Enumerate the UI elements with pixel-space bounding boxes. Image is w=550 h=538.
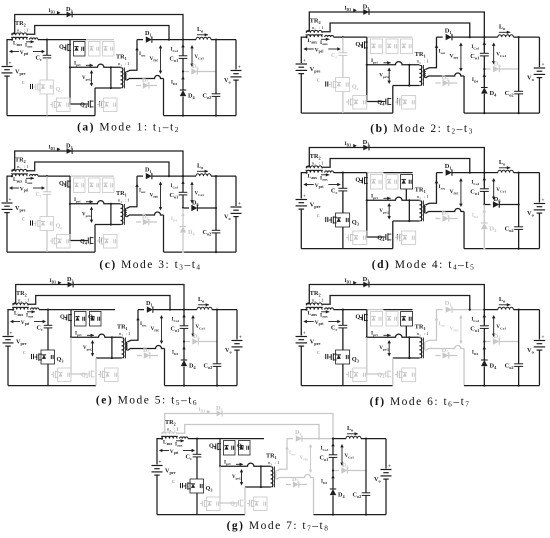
wire [348, 470, 366, 472]
current label Ipri [371, 58, 391, 64]
wire [342, 227, 344, 249]
capacitor Cc [186, 439, 202, 461]
wire [71, 309, 87, 311]
diode D5 [286, 476, 307, 488]
transistor Q5 (inactive block) [395, 96, 416, 110]
transformer TR1 core [273, 467, 275, 488]
transformer TR2 secondary winding [12, 169, 28, 171]
diode D3 [363, 139, 370, 150]
svg-text:+: + [238, 66, 241, 71]
wire [183, 328, 185, 341]
transistor Q3 [329, 213, 359, 227]
diode D4 [180, 208, 196, 252]
capacitor Cc [36, 176, 52, 198]
current label Isec [426, 37, 446, 69]
wire [342, 364, 344, 386]
node [366, 64, 368, 66]
diode D5 [136, 214, 157, 226]
transformer TR2 label [15, 20, 29, 34]
diode D6 [341, 462, 348, 474]
voltage label VCo1 [492, 315, 506, 337]
transistor Q3 (inactive block) [346, 368, 367, 382]
svg-text:: 1: : 1 [23, 28, 30, 33]
wire [334, 172, 367, 174]
voltage label VCo1 [492, 43, 506, 65]
svg-text:: 1: : 1 [125, 331, 132, 336]
transistor Q4 [80, 100, 102, 109]
transformer TR2 label [15, 157, 29, 171]
voltage label Vpri2 [379, 68, 391, 85]
node [366, 336, 368, 338]
capacitor Cc [37, 310, 53, 332]
node [69, 66, 71, 68]
current label Ipri [371, 194, 391, 200]
wire [245, 486, 271, 488]
wire [301, 385, 393, 387]
capacitor Coss [23, 351, 34, 359]
transformer TR1 secondary winding [125, 72, 126, 80]
wire [182, 207, 189, 209]
current label Ipri [74, 61, 93, 68]
capacitor Cc [36, 40, 52, 62]
voltage label Vpri [10, 320, 46, 326]
wire [332, 469, 339, 471]
transformer TR2 primary winding [306, 170, 322, 172]
transformer TR1 label [415, 324, 430, 338]
capacitor Co1 [171, 310, 189, 333]
transistor Q4 gate wire [367, 200, 384, 237]
svg-text:: 1: : 1 [422, 60, 429, 65]
voltage source Vo [527, 173, 545, 249]
current label ICo1 [171, 181, 185, 190]
inductor Laux [13, 174, 38, 183]
snubber capacitor of Q2 [370, 175, 382, 190]
svg-text:+: + [9, 198, 12, 203]
transistor Q4 [81, 370, 103, 379]
inductor Lo [498, 296, 514, 310]
wire [367, 309, 384, 311]
svg-text:n1: n1 [417, 60, 421, 65]
circuit mode d [296, 139, 546, 250]
inductor Laux [308, 35, 334, 44]
current label Isec [127, 176, 146, 208]
wire [426, 346, 464, 351]
caption mode b [370, 123, 473, 136]
current label Ipri [75, 331, 94, 338]
wire [165, 414, 333, 439]
wire [211, 175, 236, 177]
svg-text:VCo1: VCo1 [345, 454, 355, 459]
transformer TR1 primary winding [271, 467, 274, 487]
voltage label Vrec [449, 315, 462, 344]
wire [334, 309, 367, 311]
wire [342, 328, 344, 350]
wire [301, 310, 306, 336]
wire [500, 341, 519, 343]
svg-text:ID4: ID4 [171, 217, 177, 222]
transformer TR1 label [117, 324, 131, 338]
voltage label Vrec [150, 182, 163, 211]
wire [483, 56, 485, 69]
svg-text:Vpri2: Vpri2 [232, 475, 242, 480]
wire [15, 151, 183, 176]
wire [47, 328, 49, 350]
magnetizing inductance [110, 66, 112, 89]
wire [301, 248, 393, 250]
diode D1 [445, 300, 452, 313]
wire [383, 172, 412, 174]
wire [70, 175, 86, 177]
wire [95, 224, 121, 226]
current label ICo1 [471, 314, 486, 323]
wire [500, 203, 520, 205]
transistor Q5 (inactive block) [97, 98, 117, 112]
wire [236, 438, 264, 440]
transformer TR1 core [123, 68, 125, 89]
transistor Q2 [88, 312, 101, 327]
diode D3 [66, 6, 73, 17]
transistor Q5 (inactive block) [98, 368, 118, 382]
capacitor Cc [331, 173, 347, 195]
current label I_D3 [49, 145, 61, 152]
transistor Q4 gate wire [367, 65, 384, 102]
circuit mode a [2, 6, 242, 117]
transformer TR2 core [11, 173, 28, 175]
wire [323, 296, 470, 310]
transistor Q3 (inactive block) [51, 368, 71, 382]
transistor Q5 (inactive block) [395, 368, 416, 382]
wire [183, 340, 190, 342]
svg-text:Vpri2: Vpri2 [82, 76, 92, 81]
transistor Q4 [80, 237, 102, 246]
transformer TR1 secondary winding [126, 342, 127, 350]
voltage source Vpre [3, 332, 27, 347]
wire [165, 385, 238, 387]
current label Ipri [371, 331, 391, 337]
voltage label Vpri2 [379, 340, 391, 357]
capacitor Coss [317, 351, 328, 359]
wire [392, 221, 394, 249]
transistor Q1 [59, 40, 71, 68]
capacitor Co1 [320, 439, 338, 462]
transistor Q1 [355, 37, 367, 65]
voltage source Vo [225, 310, 243, 386]
wire [94, 225, 96, 253]
transistor Q5 (inactive block) [247, 497, 267, 511]
voltage label VCo1 [191, 315, 205, 337]
wire [38, 39, 70, 41]
current label Iaux [26, 310, 35, 319]
current label ID4 [321, 475, 335, 485]
wire [128, 346, 165, 351]
svg-text:C: C [317, 351, 320, 355]
wire [28, 162, 170, 176]
current label I_D3 [344, 141, 356, 148]
snubber capacitor block [103, 42, 115, 57]
voltage source Vpre [296, 331, 321, 347]
svg-text:ID4: ID4 [172, 351, 178, 356]
svg-text:VCo1: VCo1 [195, 192, 205, 197]
current label Isec [127, 40, 146, 72]
transformer TR1 secondary winding [424, 205, 425, 213]
transformer TR1 label [116, 54, 130, 68]
capacitor Co1 [470, 37, 489, 60]
current label ID4 [472, 74, 486, 84]
svg-text:: 1: : 1 [274, 460, 281, 465]
svg-text:+: + [303, 58, 306, 64]
transistor Q2 (inactive) [89, 178, 101, 193]
voltage label VCo1 [190, 182, 204, 204]
transistor Q1 [209, 439, 221, 467]
voltage label Vpri2 [83, 340, 94, 357]
voltage label VCo1 [190, 45, 204, 67]
transformer TR1 label [266, 453, 280, 467]
wire [6, 76, 8, 116]
voltage source Vpre [2, 198, 26, 213]
wire [463, 349, 465, 386]
wire [7, 251, 95, 253]
wire [138, 309, 144, 311]
diode D1 [445, 163, 452, 176]
wire [15, 15, 183, 40]
diode D5 [137, 347, 158, 359]
circuit mode b [296, 4, 546, 115]
wire [287, 438, 293, 440]
svg-text:+: + [9, 62, 12, 67]
wire [198, 71, 216, 73]
wire [182, 58, 184, 71]
node [219, 465, 221, 467]
node [366, 199, 368, 201]
svg-text:(d) Mode 4: t4–t5: (d) Mode 4: t4–t5 [372, 259, 475, 272]
current label Isec [426, 310, 446, 342]
wire [300, 74, 302, 114]
svg-text:+: + [10, 332, 13, 337]
diode D4 [180, 72, 196, 116]
diode D5 [435, 75, 457, 87]
voltage source Vpre [296, 58, 321, 74]
wire [95, 358, 97, 386]
voltage source Vpre [2, 62, 26, 77]
wire [7, 115, 95, 117]
wire [393, 220, 420, 222]
wire [513, 36, 539, 38]
wire [137, 39, 143, 41]
transformer TR1 core [123, 204, 125, 225]
capacitor Co2 [204, 310, 222, 387]
wire [323, 23, 470, 37]
wire [483, 203, 490, 205]
wire [463, 76, 465, 113]
transistor Q3 (inactive block) [200, 497, 220, 511]
transformer TR1 secondary winding [424, 342, 425, 350]
transformer TR1 label [415, 187, 430, 201]
wire [309, 148, 484, 173]
voltage label Vpri2 [232, 469, 243, 486]
svg-text:: 1: : 1 [422, 332, 429, 337]
transformer TR2 core [12, 306, 29, 308]
capacitor Co2 [203, 40, 221, 117]
wire [196, 457, 198, 479]
capacitor Co1 [470, 310, 489, 333]
transformer TR1 secondary winding [275, 471, 276, 479]
transformer TR2 secondary winding [162, 432, 178, 434]
wire [309, 12, 484, 37]
diode D6 [192, 333, 199, 345]
diode D1 [445, 28, 452, 41]
wire [301, 37, 306, 63]
magnetizing inductance [408, 199, 410, 222]
voltage label Vpri [303, 320, 340, 326]
voltage label Vpri [303, 183, 340, 189]
inductor Laux [308, 171, 334, 180]
voltage label Vrec [300, 444, 313, 473]
wire [426, 209, 464, 214]
current label ID4 [172, 346, 186, 356]
current label ID4 [171, 76, 185, 86]
node [305, 172, 307, 174]
wire [156, 475, 158, 514]
voltage label Vpri [303, 47, 340, 53]
transformer TR2 label [16, 290, 30, 304]
wire [300, 346, 302, 386]
transformer TR2 secondary winding [306, 166, 322, 168]
wire [342, 55, 344, 77]
node [69, 203, 71, 205]
svg-text:(b) Mode 2: t2–t3: (b) Mode 2: t2–t3 [370, 123, 473, 136]
diode D6 [493, 333, 501, 345]
wire [157, 439, 162, 465]
wire [483, 68, 490, 70]
current label ICo1 [171, 44, 185, 53]
svg-text:(e) Mode 5: t5–t6: (e) Mode 5: t5–t6 [96, 395, 198, 408]
current label Iaux [320, 310, 329, 319]
voltage label Vrec [150, 45, 163, 74]
caption mode f [370, 396, 471, 409]
inductor Lo [498, 159, 514, 173]
capacitor Co2 [505, 173, 524, 250]
diode D5 [136, 77, 157, 89]
voltage label Vpri2 [379, 203, 391, 220]
wire [436, 36, 442, 38]
node [161, 438, 163, 440]
transistor Q4 [230, 499, 252, 508]
svg-text:+: + [542, 62, 545, 68]
capacitor Coss [22, 218, 33, 226]
diode D3 [363, 4, 370, 15]
transformer TR2 primary winding [12, 174, 27, 176]
wire [332, 457, 334, 470]
transformer TR2 core [11, 36, 28, 38]
circuit mode c [2, 143, 242, 254]
wire [301, 173, 306, 199]
wire [426, 73, 464, 78]
svg-text:ICo1: ICo1 [171, 184, 179, 189]
transistor Q3 (inactive block) [346, 231, 367, 245]
diode D5 [435, 210, 457, 222]
transformer TR1 primary winding [122, 338, 125, 358]
current label I_D3 [199, 407, 211, 414]
svg-text:VCo1: VCo1 [195, 55, 205, 60]
diode D6 [493, 196, 501, 208]
wire [38, 175, 70, 177]
wire [182, 70, 189, 72]
voltage source Vo [527, 37, 545, 113]
wire [464, 112, 539, 114]
wire [212, 309, 237, 311]
wire [96, 357, 122, 359]
circuit mode f [296, 276, 546, 387]
transistor Q4 gate wire [71, 337, 88, 374]
voltage label Vrec [449, 178, 462, 207]
transformer TR2 label [165, 419, 179, 433]
inductor Lo [346, 425, 361, 439]
capacitor Coss [22, 81, 33, 89]
capacitor Co2 [353, 439, 371, 516]
svg-text:ID4: ID4 [171, 81, 177, 86]
wire [342, 92, 344, 114]
diode D4 [481, 342, 497, 386]
transistor Q2 (inactive) [386, 312, 398, 327]
svg-text:VCo1: VCo1 [196, 325, 206, 330]
wire [153, 309, 197, 311]
wire [70, 39, 86, 41]
wire [178, 425, 320, 439]
svg-text:ICo1: ICo1 [321, 447, 329, 452]
transformer TR1 secondary winding [125, 208, 126, 216]
diode D3 [216, 405, 223, 416]
transistor Qc [329, 78, 359, 92]
diode D3 [67, 276, 74, 287]
wire [220, 463, 271, 466]
transformer TR2 secondary winding [306, 30, 322, 32]
svg-text:(f) Mode 6: t6–t7: (f) Mode 6: t6–t7 [370, 396, 471, 409]
transistor Q3 [329, 350, 359, 364]
svg-text:n1: n1 [417, 195, 421, 200]
wire [309, 285, 484, 310]
wire [513, 309, 539, 311]
svg-text:+: + [238, 202, 241, 207]
current label Iaux [320, 173, 329, 182]
wire [163, 79, 165, 116]
wire [199, 341, 217, 343]
wire [196, 493, 198, 515]
transistor Q1 [60, 310, 72, 338]
transformer TR2 primary winding [306, 307, 322, 309]
voltage label VCo1 [340, 444, 354, 466]
svg-text:ICo1: ICo1 [172, 318, 180, 323]
voltage source Vpre [296, 194, 321, 210]
circuit mode e [3, 276, 243, 387]
capacitor Co1 [170, 176, 188, 199]
capacitor Cc [331, 37, 347, 59]
wire [277, 475, 314, 480]
wire [8, 310, 13, 336]
snubber capacitor block [103, 178, 115, 193]
svg-text:ID4: ID4 [321, 480, 327, 485]
transistor Q2 (inactive) [386, 175, 398, 190]
inductor Laux [13, 38, 38, 47]
wire [28, 26, 170, 40]
wire [152, 175, 196, 177]
wire [16, 285, 184, 310]
wire [182, 195, 184, 208]
transformer TR1 label [415, 51, 430, 65]
transformer TR1 secondary winding [424, 69, 425, 77]
wire [8, 385, 96, 387]
svg-text:C: C [317, 214, 320, 218]
current label ID4 [171, 213, 185, 223]
